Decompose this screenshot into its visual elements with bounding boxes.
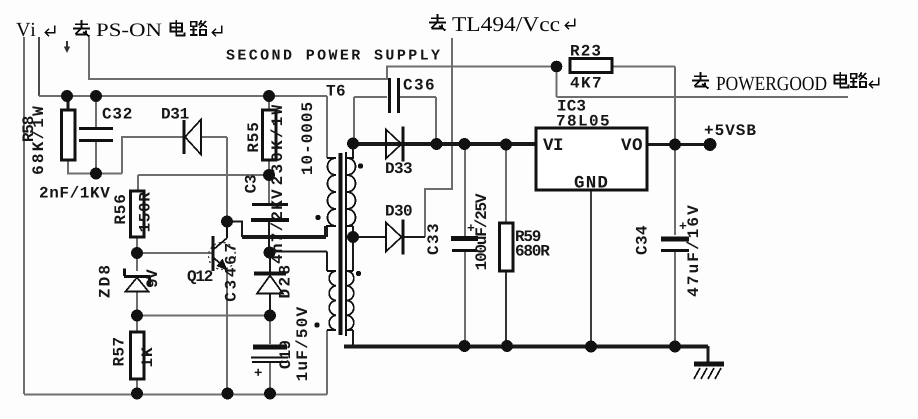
svg-text:4n7/2KV: 4n7/2KV [269,188,287,264]
wire C34 top [674,145,676,236]
svg-text:Vi: Vi [16,19,37,41]
wire ground stub [707,346,710,362]
wire C32 top [95,96,97,128]
net label 去 POWERGOOD 电路 [692,72,709,89]
resistor R23 [570,59,612,73]
diode D28 [254,274,286,294]
T6 core [339,153,343,335]
wire C36 left [354,97,387,144]
T6 secondary top winding [347,158,356,226]
svg-text:VO: VO [621,136,643,156]
wire base of Q12 [137,252,212,254]
wire secondary top to +rail [347,144,353,159]
svg-text:VI: VI [543,136,563,156]
svg-text:C3467: C3467 [223,240,241,302]
svg-text:10-0005: 10-0005 [299,101,317,175]
T6 phase dot aux [314,322,319,327]
node dot emitter rail [222,388,234,400]
resistor R59 [500,223,514,271]
node dot base junction [131,247,143,259]
svg-text:D33: D33 [385,160,412,178]
wire D30 anode line [353,236,386,238]
wire C33 top [464,144,466,236]
T6 phase dot secondary top [358,163,363,168]
svg-text:ZD8: ZD8 [97,263,115,298]
wire D31 cathode to collector [201,137,227,222]
wire TL494/Vcc drop to D30 output [425,38,452,237]
node dot VO [669,139,681,151]
wire D30 cathode line [404,236,425,238]
svg-text:68K/1W: 68K/1W [30,104,48,175]
T6 phase dot secondary bottom [356,271,361,276]
wire PS-ON branch drop to +rail [38,37,40,96]
net label 去 TL494/Vcc [429,14,446,31]
capacitor C5 (4n7) [251,205,289,221]
wire node B horizontal [138,174,269,176]
wire C32 bottom [95,141,97,174]
svg-text:D31: D31 [161,106,189,124]
wire R55 bottom [268,160,270,175]
svg-text:C36: C36 [403,77,436,95]
wire +5V rail (D33 output) [353,142,536,146]
node dot B (R55 bottom) [263,169,275,181]
node dot R59 top [500,139,512,151]
svg-text:R23: R23 [570,43,602,61]
svg-text:POWERGOOD: POWERGOOD [716,73,827,95]
IC U1 78L05 regulator box [536,128,647,190]
transformer T6 [326,152,356,336]
wire node B to R56 top [137,175,139,191]
wire C34 bottom [674,251,676,346]
wire Vi input drop (left vertical) [23,37,25,394]
wire PS-ON line to R23 [89,37,557,79]
svg-text:GND: GND [574,174,609,194]
ground symbol [694,364,724,379]
wire D31 anode left drop [122,137,183,174]
wire secondary middle tap [347,226,353,271]
wire R57 top [136,316,138,333]
wire VO output [647,143,706,146]
node dot C33 bottom [459,340,471,352]
wire collector to drain line [227,222,242,238]
wire ZD8 top [136,253,138,271]
svg-text:1uF/50V: 1uF/50V [294,306,312,382]
wire aux winding bottom [326,330,328,395]
dark connection wires [68,96,708,362]
node dot A (C32 bottom) [90,168,102,180]
svg-text:R57: R57 [111,336,129,366]
wire R57 bottom [136,379,138,393]
node dot GND pin rail [585,341,597,353]
capacitor C36 [390,78,399,113]
node dot secondary mid tap [347,231,359,243]
node dot secondary top [347,138,359,150]
resistor R58 [62,110,76,160]
wire secondary ground rail [344,345,708,349]
svg-text:C33: C33 [425,222,443,255]
wire C5 bottom to D28 [268,220,270,253]
wire R56 bottom [136,237,138,253]
resistor R56 [131,191,145,237]
svg-text:TL494/Vcc: TL494/Vcc [452,12,560,36]
node dot R23 left [551,61,563,73]
node dot D28 cathode [264,247,276,259]
wire R58 top stub [67,96,70,110]
node dot R59 bottom [501,340,513,352]
diode D31 [184,120,201,155]
wire +HV rail y96 to transformer primary top [39,96,327,158]
node dot R57 bottom rail [131,388,143,400]
svg-text:R55: R55 [245,121,263,152]
wire IC3 GND pin [590,190,592,346]
diode D33 [386,127,403,162]
svg-text:100uF/25V: 100uF/25V [473,193,491,270]
wire R59 bottom [505,271,507,346]
wire aux winding top feed [270,252,327,272]
svg-text:47uF/16V: 47uF/16V [685,203,703,297]
svg-text:R56: R56 [112,193,130,224]
svg-text:1K: 1K [139,346,157,367]
wire primary bottom rail [24,394,327,396]
wire C5 top link [268,175,270,204]
node dot ZD8 anode [131,310,143,322]
wire R23 right to VO node [612,67,675,145]
svg-text:4K7: 4K7 [570,75,603,93]
svg-text:9V: 9V [144,269,162,288]
capacitor C34 electrolytic [661,239,689,251]
svg-text:C34: C34 [634,225,652,255]
wire C36 right [399,97,436,144]
transistor Q2 C3467 [209,222,236,272]
resistor R55 [263,110,277,160]
wire R55 top [268,96,270,110]
wire C33 bottom [464,251,466,346]
svg-text:C19: C19 [277,340,295,369]
node dot R55 top [263,90,275,102]
svg-text:2nF/1KV: 2nF/1KV [39,185,110,203]
T6 secondary bottom winding [347,271,354,330]
svg-text:C32: C32 [102,106,133,124]
T6 phase dot primary [315,215,320,220]
wire C19 top [269,316,271,345]
svg-text:680R: 680R [515,243,550,261]
node dot C32 top [90,90,102,102]
wire ZD8 to D28 anode [137,315,270,317]
node dot C34 bottom [669,341,681,353]
diode D30 [386,220,403,255]
resistor R57 [131,332,145,379]
capacitor C33 electrolytic [451,239,478,251]
svg-text:230K/1W: 230K/1W [269,103,287,186]
wire ZD8 bottom [136,292,138,316]
svg-text:C3: C3 [243,175,261,194]
wire R59 top [505,144,507,223]
arrow down at PS-ON node [64,41,70,53]
svg-text:T6: T6 [326,83,346,101]
T6 primary winding [326,158,336,226]
svg-text:D28: D28 [277,262,295,298]
svg-text:PS-ON: PS-ON [96,20,162,41]
svg-text:SECOND POWER SUPPLY: SECOND POWER SUPPLY [226,48,440,65]
node dot collector [221,216,233,228]
svg-text:78L05: 78L05 [556,113,611,131]
svg-text:+5VSB: +5VSB [704,122,757,140]
node dot C36 right [431,138,443,150]
zener diode ZD8 [124,269,150,292]
capacitor C32 [79,129,113,141]
svg-text:+: + [254,366,262,382]
capacitor C19 electrolytic [251,347,288,362]
node dot C19 bottom rail [264,388,276,400]
wire C19 bottom [269,362,271,394]
wire D28 top [269,253,271,273]
net label 去 PS-ON 电路 [73,20,90,37]
node dot C33 top [459,138,471,150]
node terminal +5VSB [704,138,717,151]
node dot D28 anode [264,310,276,322]
wire secondary bottom to ground rail [347,330,353,346]
T6 aux winding [327,271,336,330]
node dot rail96 left [61,90,73,102]
wire to POWERGOOD [557,67,849,98]
svg-text:D30: D30 [385,203,412,221]
wire D28 bottom [269,294,271,316]
return mark after Vi [45,26,55,37]
svg-text:150R: 150R [137,192,155,233]
wire drain thick line [242,226,326,237]
svg-text:Q12: Q12 [187,268,213,286]
wire R58 bottom to node A [68,159,122,174]
wire emitter drop [226,269,228,394]
